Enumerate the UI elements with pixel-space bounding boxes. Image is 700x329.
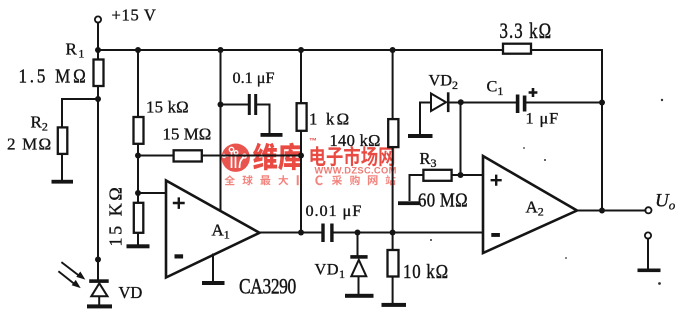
svg-text:60 MΩ: 60 MΩ <box>418 189 468 212</box>
svg-text:™: ™ <box>309 137 317 146</box>
svg-text:1 μF: 1 μF <box>526 109 560 128</box>
svg-text:10 kΩ: 10 kΩ <box>403 261 449 284</box>
svg-text:VD: VD <box>119 283 143 302</box>
svg-text:0.1 μF: 0.1 μF <box>233 69 275 87</box>
svg-text:15 KΩ: 15 KΩ <box>106 185 126 247</box>
svg-text:+15 V: +15 V <box>112 6 157 25</box>
svg-text:1.5 MΩ: 1.5 MΩ <box>19 65 89 86</box>
svg-text:WWW.DZSC.COM: WWW.DZSC.COM <box>315 165 397 175</box>
svg-text:2 MΩ: 2 MΩ <box>7 135 52 154</box>
svg-text:3.3 kΩ: 3.3 kΩ <box>500 20 553 44</box>
svg-text:140 kΩ: 140 kΩ <box>330 131 381 150</box>
svg-text:CA3290: CA3290 <box>239 274 296 299</box>
svg-text:15 MΩ: 15 MΩ <box>163 125 212 144</box>
svg-text:1 kΩ: 1 kΩ <box>309 110 351 129</box>
svg-text:15 kΩ: 15 kΩ <box>146 98 189 117</box>
svg-text:0.01 μF: 0.01 μF <box>306 201 363 220</box>
